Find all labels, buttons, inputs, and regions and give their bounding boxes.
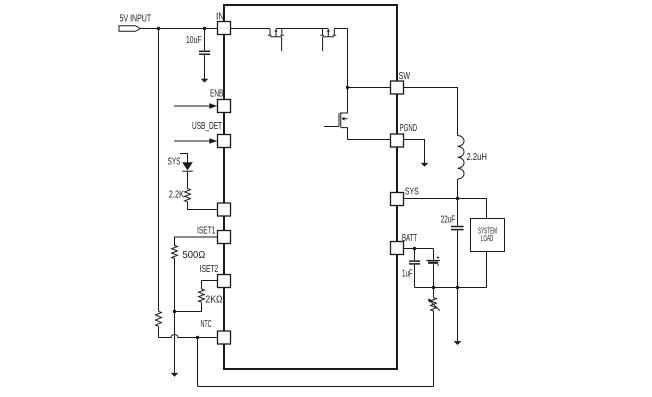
IC U1 body [224,5,397,369]
wire right riser to thermistor [433,311,435,387]
wire Q3 source to PGND pin [348,139,391,141]
diode D1 [182,162,193,188]
ground arrow below C1 [201,79,209,83]
ground arrow C3 [454,341,462,345]
node junction SYS/L1/C3 [456,197,459,200]
input arrow USB_DET [174,121,222,144]
wire inductor to SYS node [457,179,459,198]
wire below rail to ground [457,288,459,342]
wire NTC drop to bottom rail [197,338,199,387]
wire 2K to ground line [175,302,202,311]
pin BATT [391,233,418,254]
svg-text:USB_DET: USB_DET [192,121,222,132]
pin PGND [391,123,418,147]
svg-text:SYS: SYS [168,157,181,168]
resistor R1 pull-up (unlabeled) [156,311,162,326]
pin NTC [201,319,231,344]
node junction C3/rail [456,286,459,289]
wire resistor R1 to NTC rail [158,326,160,337]
wire PGND stub [404,140,425,164]
pin NC [218,203,231,216]
pin IN [216,12,231,35]
wire BATT rail [404,248,434,250]
wire SYS rail [404,199,487,219]
transistor Q3 NMOS [324,112,348,139]
svg-text:2KΩ: 2KΩ [205,295,223,306]
wire left rail down from 5V [158,29,160,312]
transistor Q2 [320,29,336,52]
svg-text:PGND: PGND [400,123,417,134]
svg-text:IN: IN [216,12,224,23]
wire bottom rail [198,386,434,388]
resistor R2 2.2K [169,189,191,202]
svg-text:22uF: 22uF [441,215,456,226]
capacitor C3 22uF [441,199,464,288]
ground arrow ISET chain [171,373,179,377]
wire 500ohm down to ground arrow [174,259,176,374]
thermistor RT1 [428,298,440,311]
wire ISET2 to 2K [202,281,218,290]
resistor R3 500ohm [172,246,206,262]
svg-text:500Ω: 500Ω [183,250,206,261]
svg-text:10uF: 10uF [186,35,202,46]
inductor L1 2.2uH [458,136,487,180]
input arrow ENB [174,88,224,109]
capacitor C2 1uF [402,249,420,288]
wire SW to inductor [404,88,458,136]
node junction NTC rail [196,336,199,339]
node junction battery/rail [432,286,435,289]
wire internal node down to Q3 [347,29,349,114]
pin ENB [218,100,231,113]
node junction 10uF tap [203,27,206,30]
svg-text:NTC: NTC [201,319,212,330]
wire system load bottom lead [486,252,488,288]
net label SYS with stub wire [168,154,188,168]
wire R2 to pin [188,202,218,210]
node junction C2 tap [413,247,416,250]
svg-text:BATT: BATT [402,233,417,244]
connector J1 5V INPUT [119,14,151,32]
node junction SW link [346,86,349,89]
wire to SW pin [348,87,391,89]
svg-text:SYS: SYS [405,186,419,197]
transistor Q1 [268,29,284,52]
wire thermistor to BATT rail [433,288,435,298]
wire ISET1 to 500 ohm [175,237,218,246]
capacitor C1 10uF [186,29,210,80]
wire 5V input rail [140,28,217,30]
pin USB_DET [218,135,231,148]
svg-text:2.2uH: 2.2uH [467,152,487,163]
svg-text:LOAD: LOAD [481,234,494,243]
pin SYS [391,186,419,205]
wire internal top rail [230,28,348,30]
battery BT1 [427,249,440,288]
resistor R4 2Kohm [199,289,223,306]
ground arrow PGND [421,163,429,167]
system load box [471,219,505,252]
pin ISET2 [200,264,231,288]
svg-text:5V INPUT: 5V INPUT [120,14,152,25]
svg-text:SW: SW [399,71,411,82]
wire battery bottom rail [415,287,487,289]
svg-text:2.2K: 2.2K [169,190,184,201]
svg-text:1uF: 1uF [402,268,413,279]
node junction R3/R4 [173,310,176,313]
svg-text:ENB: ENB [210,88,224,99]
svg-text:ISET2: ISET2 [200,264,219,275]
pin ISET1 [197,226,231,244]
wire NTC net with hop over ISET ground line [159,335,218,338]
node junction on 5V rail [157,27,160,30]
pin SW [391,71,411,94]
svg-text:ISET1: ISET1 [197,226,216,237]
